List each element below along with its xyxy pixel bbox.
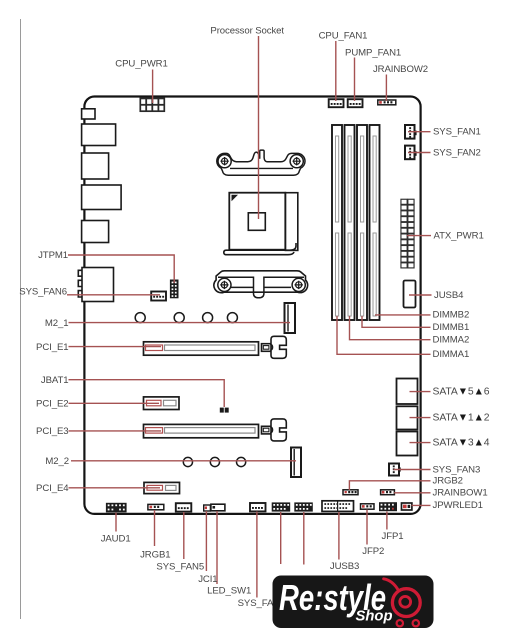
chassis intrusion JCI1 — [204, 505, 211, 511]
fan header SYS_FAN6 — [151, 292, 166, 301]
M.2 slot M2_2 — [291, 448, 301, 478]
USB 2.0 header JUSB2 — [272, 502, 291, 511]
leader CPU_PWR1 — [152, 70, 154, 104]
leader SYS_FAN1 — [408, 131, 431, 133]
svg-text:JRAINBOW2: JRAINBOW2 — [373, 64, 428, 75]
leader SYS_FAN4 — [256, 512, 258, 598]
leader JRAINBOW1 — [394, 492, 431, 494]
clear CMOS jumper JBAT1 — [220, 408, 229, 413]
svg-text:JPWRLED1: JPWRLED1 — [433, 500, 483, 511]
logo @ inner — [400, 596, 411, 607]
ARGB header JRAINBOW1 — [381, 490, 395, 495]
svg-text:PCI_E2: PCI_E2 — [36, 399, 68, 410]
bracket top screw right — [290, 155, 303, 168]
svg-text:SYS_FAN2: SYS_FAN2 — [433, 147, 481, 158]
svg-text:PUMP_FAN1: PUMP_FAN1 — [345, 47, 401, 58]
leader M2_2 — [71, 460, 296, 462]
leader PCI_E3 — [69, 430, 162, 432]
svg-text:SYS_FAN3: SYS_FAN3 — [433, 464, 481, 475]
svg-text:DIMMB1: DIMMB1 — [433, 322, 470, 333]
svg-text:DIMMA2: DIMMA2 — [433, 335, 470, 346]
PCIe x16 slot PCI_E1 — [144, 342, 259, 355]
svg-text:JRGB1: JRGB1 — [140, 550, 170, 561]
bracket top inner bottom line — [230, 167, 293, 169]
DIMM slot DIMMA2 — [345, 125, 355, 320]
svg-text:LED_SW1: LED_SW1 — [207, 585, 251, 596]
svg-text:SATA▼5▲6: SATA▼5▲6 — [433, 386, 490, 397]
leader ATX_PWR1 — [407, 235, 431, 237]
LED switch LED_SW1 — [211, 504, 225, 511]
CPU power connector CPU_PWR1 — [140, 98, 164, 111]
svg-text:JFP1: JFP1 — [382, 531, 404, 542]
socket retention bracket top — [217, 150, 305, 175]
svg-text:SATA▼3▲4: SATA▼3▲4 — [433, 437, 490, 448]
bracket bottom screw right — [292, 278, 305, 291]
svg-text:CPU_FAN1: CPU_FAN1 — [319, 31, 368, 42]
leader JRGB1 — [154, 510, 156, 546]
PCIe x16 slot PCI_E3 — [144, 424, 259, 437]
DIMM slot DIMMB2 — [370, 125, 380, 320]
leader JUSB1 — [303, 512, 305, 565]
leader JFP1 — [386, 512, 388, 530]
RGB header JRGB2 — [343, 490, 358, 495]
leader JTPM1 — [68, 255, 174, 283]
svg-text:JRAINBOW1: JRAINBOW1 — [433, 488, 488, 499]
svg-text:JBAT1: JBAT1 — [41, 375, 69, 386]
logo cart wheel left — [397, 620, 403, 626]
leader CPU_FAN1 — [335, 41, 337, 101]
logo @ ring — [392, 589, 420, 617]
svg-text:M2_1: M2_1 — [45, 318, 69, 329]
svg-text:ATX_PWR1: ATX_PWR1 — [434, 230, 484, 241]
fan header SYS_FAN4 — [250, 503, 266, 511]
leader DIMMB2 — [375, 314, 431, 316]
leader SATA 5/6 — [410, 391, 431, 393]
ARGB header JRAINBOW2 — [378, 100, 396, 105]
page border line — [20, 19, 22, 619]
socket pin-1 triangle — [232, 195, 239, 202]
SATA ports 1/2 — [397, 406, 418, 429]
svg-text:SYS_FAN1: SYS_FAN1 — [433, 127, 481, 138]
rear I/O audio cluster — [82, 268, 114, 302]
leader JBAT1 — [69, 380, 225, 407]
fan header SYS_FAN1 — [405, 125, 417, 139]
svg-text:JCI1: JCI1 — [198, 574, 217, 585]
svg-text:PCI_E4: PCI_E4 — [36, 483, 69, 494]
svg-text:SATA▼1▲2: SATA▼1▲2 — [433, 412, 490, 423]
board outline — [84, 97, 420, 514]
svg-text:JFP2: JFP2 — [362, 546, 384, 557]
bracket bottom screw left — [218, 278, 231, 291]
M.2 slot M2_1 — [285, 303, 296, 333]
rear I/O port 2 — [82, 124, 116, 146]
leader JAUD1 — [115, 513, 117, 532]
svg-text:SYS_FAN5: SYS_FAN5 — [156, 561, 204, 572]
USB 2.0 header JUSB1 — [294, 502, 313, 511]
leader PCI_E1 — [69, 346, 162, 348]
bracket bottom inner ledge + center tab — [218, 277, 304, 298]
logo cart wheel right — [413, 620, 419, 626]
socket lever bar — [224, 243, 296, 255]
svg-text:PCI_E3: PCI_E3 — [36, 426, 68, 437]
fan header PUMP_FAN1 — [348, 99, 363, 107]
leader SYS_FAN2 — [408, 152, 431, 154]
fan header CPU_FAN1 — [329, 99, 344, 107]
front panel header JFP1 — [379, 502, 397, 511]
rear I/O port 4 — [82, 185, 122, 210]
leader SYS_FAN5 — [183, 512, 185, 559]
leader SATA 1/2 — [410, 417, 431, 419]
svg-text:Shop: Shop — [356, 609, 393, 625]
leader PCI_E4 — [69, 487, 161, 489]
leader JRAINBOW2 — [385, 75, 387, 102]
socket body — [229, 193, 285, 250]
USB 3.2 header JUSB4 — [404, 281, 416, 308]
leader SYS_FAN3 — [394, 469, 431, 471]
M2_1 standoff holes — [135, 313, 237, 323]
leader DIMMA1 — [337, 316, 431, 354]
rear I/O port 1 — [82, 109, 95, 119]
leader SATA 3/4 — [410, 442, 431, 444]
leader PUMP_FAN1 — [354, 58, 356, 102]
DIMM slot DIMMB1 — [357, 125, 367, 320]
leader JRGB2 — [349, 481, 430, 490]
bracket top screw left — [218, 155, 231, 168]
svg-text:Processor Socket: Processor Socket — [210, 26, 284, 37]
svg-text:CPU_PWR1: CPU_PWR1 — [115, 59, 168, 70]
ATX power connector ATX_PWR1 — [401, 199, 414, 268]
leader Processor Socket — [258, 36, 260, 219]
leader JCI1 — [205, 511, 207, 571]
svg-text:DIMMB2: DIMMB2 — [433, 310, 470, 321]
SATA ports 5/6 — [397, 379, 418, 405]
front audio header JAUD1 — [106, 503, 127, 513]
PCIe x1 slot PCI_E2 — [144, 397, 180, 410]
svg-text:DIMMA1: DIMMA1 — [433, 349, 470, 360]
svg-text:JRGB2: JRGB2 — [433, 476, 463, 487]
PCI_E3 latch — [262, 419, 287, 441]
TPM header JTPM1 — [170, 280, 178, 298]
LED power header JPWRLED1 — [402, 503, 412, 510]
svg-text:JUSB4: JUSB4 — [434, 290, 464, 301]
svg-text:M2_2: M2_2 — [45, 456, 69, 467]
svg-text:SYS_FAN6: SYS_FAN6 — [19, 286, 67, 297]
leader JUSB3 — [338, 512, 340, 560]
svg-text:JUSB3: JUSB3 — [330, 561, 359, 572]
logo plate — [273, 576, 434, 629]
SATA ports 3/4 — [397, 432, 418, 456]
logo cart handle — [384, 579, 399, 591]
leader JUSB4 — [409, 294, 432, 296]
leader M2_1 — [69, 322, 291, 324]
leader JUSB2 — [280, 512, 282, 564]
fan header SYS_FAN5 — [176, 503, 192, 511]
svg-text:PCI_E1: PCI_E1 — [36, 342, 68, 353]
rear I/O port 3 — [82, 153, 109, 179]
RGB header JRGB1 — [148, 504, 164, 509]
socket center square — [248, 213, 265, 231]
leader DIMMA2 — [350, 316, 431, 340]
leader DIMMB1 — [362, 316, 431, 327]
rear I/O port 5 — [82, 221, 109, 243]
leader PCI_E2 — [69, 402, 160, 404]
USB 3.2 header JUSB3 — [322, 501, 354, 512]
socket right strip — [285, 193, 297, 251]
leader JPWRLED1 — [412, 504, 431, 506]
fan header SYS_FAN2 — [405, 146, 417, 160]
rear I/O audio jack bumps — [78, 270, 82, 297]
svg-text:JTPM1: JTPM1 — [38, 250, 68, 261]
leader LED_SW1 — [216, 511, 218, 584]
M2_2 standoff holes — [183, 457, 245, 466]
socket retention bracket bottom — [214, 271, 308, 293]
PCI_E1 latch — [262, 336, 287, 358]
leader JFP2 — [366, 510, 368, 545]
front panel header JFP2 — [361, 504, 375, 509]
fan header SYS_FAN3 — [389, 464, 401, 476]
DIMM slot DIMMA1 — [332, 125, 342, 320]
svg-text:JAUD1: JAUD1 — [101, 534, 131, 545]
leader SYS_FAN6 — [67, 294, 160, 296]
PCIe x1 slot PCI_E4 — [144, 482, 180, 493]
